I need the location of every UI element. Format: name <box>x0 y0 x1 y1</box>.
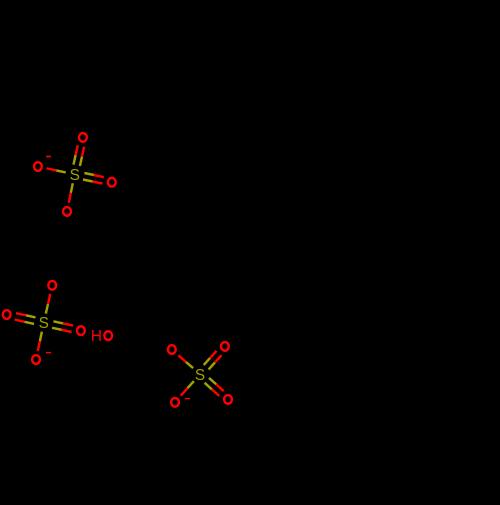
svg-text:S: S <box>70 167 80 184</box>
svg-text:S: S <box>39 315 49 332</box>
svg-text:H: H <box>91 328 102 345</box>
svg-text:S: S <box>195 367 205 384</box>
